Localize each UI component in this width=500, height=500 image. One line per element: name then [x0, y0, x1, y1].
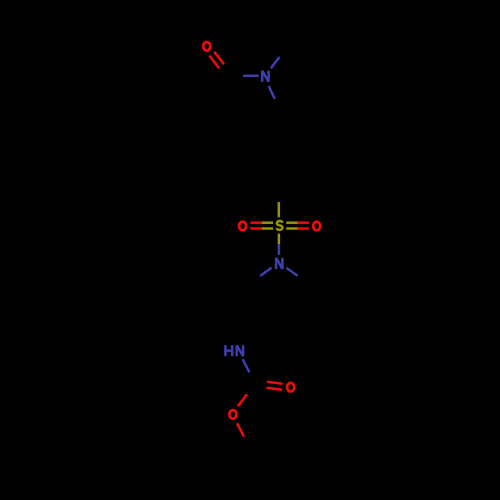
left sulfonyl oxygen O10 label	[239, 222, 246, 231]
N12-C2' ring bond (blue half)	[260, 268, 271, 276]
sulfur S label	[277, 221, 283, 230]
ester oxygen O16 label	[229, 410, 236, 419]
carbamate HN label : N glyph	[237, 345, 243, 356]
N13-C14 bond (blue half)	[243, 359, 250, 372]
N3-CH3 methyl bond (blue half)	[271, 57, 280, 68]
C2-N3 bond (blue half)	[243, 75, 259, 78]
carbonyl oxygen O15 label	[287, 383, 294, 392]
right sulfonyl oxygen O11 label	[313, 222, 320, 231]
S-N12 bond (yellow then blue halves)	[278, 234, 281, 255]
pyrrolidine nitrogen N12 label	[276, 258, 282, 269]
O16-C17 bond (red half)	[237, 423, 244, 436]
acetyl oxygen O1 label	[203, 42, 210, 51]
amide nitrogen N3 label	[262, 71, 268, 82]
C14=O15 double bond (red halves)	[266, 382, 282, 390]
S=O right double bond	[286, 223, 309, 229]
C14-O16 bond (red half)	[238, 394, 247, 406]
carbamate HN label : H glyph	[224, 345, 233, 356]
C2=O1 double bond (red halves)	[209, 52, 224, 68]
N12-C5' ring bond (blue half)	[286, 268, 297, 276]
C8-S bond (yellow half)	[278, 202, 281, 217]
N3-C5 ring bond (blue half)	[269, 86, 275, 99]
S=O left double bond	[250, 223, 273, 229]
